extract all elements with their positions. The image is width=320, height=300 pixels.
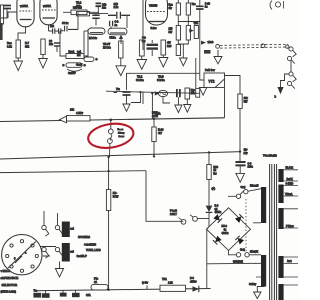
resistor R32 xyxy=(238,94,249,109)
svg-text:6br: 6br xyxy=(169,7,173,10)
svg-text:ч-TRA-S: ч-TRA-S xyxy=(1,270,11,273)
diode D3 xyxy=(206,204,222,229)
speaker captions xyxy=(77,235,101,258)
resistor R26 xyxy=(106,190,119,211)
socket P2 xyxy=(170,209,197,221)
svg-text:Ryp1: Ryp1 xyxy=(69,51,75,54)
capacitor C23 xyxy=(177,89,180,105)
diode D5 xyxy=(213,214,222,223)
svg-text:T-0з MAзNS: T-0з MAзNS xyxy=(263,154,277,157)
svg-text:4007п: 4007п xyxy=(215,211,222,214)
capacitor C6 xyxy=(62,63,86,75)
svg-text:зN40т: зN40т xyxy=(190,280,197,283)
capacitor C1 xyxy=(0,23,3,40)
svg-text:22u: 22u xyxy=(102,7,107,10)
svg-text:v105A: v105A xyxy=(20,4,28,8)
triode V3 xyxy=(84,28,105,40)
resistor R11 xyxy=(76,2,108,16)
ground xyxy=(116,66,126,76)
svg-text:Aw2: Aw2 xyxy=(287,260,292,263)
resistor R23 xyxy=(169,3,181,15)
ground xyxy=(123,104,130,111)
resistor R31 xyxy=(185,88,195,105)
svg-text:8.2k: 8.2k xyxy=(7,45,12,48)
text +48v xyxy=(142,281,149,289)
pot VR1 xyxy=(76,51,98,67)
wire bottom rail xyxy=(34,289,211,291)
pot VR4a xyxy=(189,22,199,38)
jack J5 xyxy=(289,72,296,82)
svg-text:1Rk: 1Rk xyxy=(76,5,81,8)
svg-text:P-LзG: P-LзG xyxy=(170,209,177,212)
tap labels xyxy=(285,167,294,264)
svg-text:4TBк: 4TBк xyxy=(152,115,159,118)
capacitor C19 xyxy=(235,162,253,173)
capacitor C16 xyxy=(108,3,130,19)
svg-text:4.5Wт: 4.5Wт xyxy=(76,112,84,115)
resistor R27 xyxy=(169,26,181,41)
switch S2a xyxy=(228,184,261,198)
ground xyxy=(199,88,206,96)
svg-text:C2A: C2A xyxy=(86,294,91,297)
svg-text:G-RED: G-RED xyxy=(286,182,294,185)
gang link dashed xyxy=(220,44,288,48)
capacitor C2 xyxy=(1,6,11,19)
wire xyxy=(239,109,241,162)
svg-text:ECC8з: ECC8з xyxy=(89,36,98,40)
svg-text:VRn: VRn xyxy=(194,22,199,25)
ground xyxy=(249,284,265,299)
svg-text:5W: 5W xyxy=(244,100,248,103)
triode V4 xyxy=(108,15,127,44)
svg-text:2n2: 2n2 xyxy=(50,25,55,28)
ground xyxy=(137,60,147,70)
svg-text:C9 2п: C9 2п xyxy=(62,22,69,25)
svg-text:TOTAL L0AD: TOTAL L0AD xyxy=(86,249,101,252)
wire xyxy=(281,74,289,87)
diode D6 xyxy=(235,214,244,223)
svg-text:5R8a: 5R8a xyxy=(110,35,117,39)
capacitor C5 xyxy=(49,25,64,34)
jack J4 xyxy=(287,56,294,63)
resistor R41 xyxy=(160,278,186,291)
wire xyxy=(8,12,17,18)
transformer T1 core xyxy=(263,154,277,300)
node xyxy=(239,149,248,155)
wire feed xyxy=(143,92,152,119)
svg-text:6CA8a: 6CA8a xyxy=(157,79,165,82)
wire xyxy=(60,29,88,56)
jack J8 xyxy=(55,247,62,255)
transformer secondary winding xyxy=(278,169,283,300)
transformer primary winding xyxy=(261,187,266,287)
text TR labels xyxy=(136,75,165,81)
resistor R22 xyxy=(161,40,172,58)
capacitor C9 xyxy=(62,22,78,31)
svg-text:(+48v: (+48v xyxy=(142,281,149,284)
svg-text:R7W: R7W xyxy=(113,195,119,198)
resistor R28 xyxy=(186,26,190,41)
svg-text:зMPEDANCE: зMPEDANCE xyxy=(1,276,19,280)
ground xyxy=(184,105,191,113)
wire rail B xyxy=(0,152,241,159)
jack J1 xyxy=(42,211,49,236)
resistor R1 xyxy=(0,5,3,24)
resistor R21a xyxy=(139,40,144,60)
wire xyxy=(77,12,79,29)
capacitor C22 xyxy=(72,290,91,297)
cathode network R5 xyxy=(66,51,84,59)
wire xyxy=(290,61,292,72)
capacitor C21 xyxy=(42,291,50,298)
text node A xyxy=(209,180,215,206)
ground xyxy=(236,173,245,182)
svg-text:1M: 1M xyxy=(77,54,80,57)
pentode V5 xyxy=(146,0,168,30)
svg-text:4007п: 4007п xyxy=(222,232,230,235)
node circle xyxy=(216,45,220,49)
ground xyxy=(175,105,182,113)
wire xyxy=(142,0,144,50)
capacitor C18 xyxy=(142,37,158,56)
svg-text:2.2u: 2.2u xyxy=(114,6,119,9)
wire xyxy=(225,76,241,95)
wire xyxy=(178,40,188,58)
resistor R4 xyxy=(7,40,20,58)
svg-text:0RANGE: 0RANGE xyxy=(233,260,243,263)
svg-text:R20: R20 xyxy=(167,45,172,48)
svg-text:ECC8з: ECC8з xyxy=(103,46,112,49)
node circle xyxy=(286,45,289,48)
terminal block xyxy=(33,291,41,298)
wire xyxy=(197,218,209,220)
jack J7 xyxy=(42,247,49,258)
jack J2 xyxy=(55,213,62,234)
wire xyxy=(195,58,197,88)
capacitor C20 xyxy=(114,89,131,104)
wire xyxy=(178,0,199,26)
resistor R34 xyxy=(196,88,200,97)
jack J6 xyxy=(287,81,294,88)
svg-text:YЕuшL: YЕuшL xyxy=(285,193,293,196)
svg-text:5з-ом: 5з-ом xyxy=(118,129,124,131)
diode D7 xyxy=(213,236,222,245)
svg-text:VT2: VT2 xyxy=(209,80,215,84)
arrowhead xyxy=(60,116,67,123)
svg-text:2A: 2A xyxy=(94,281,97,284)
svg-text:GxQ: GxQ xyxy=(240,249,245,252)
wire xyxy=(131,92,141,103)
svg-text:v105A: v105A xyxy=(43,4,51,8)
selector captions xyxy=(1,270,19,294)
text HT xyxy=(152,112,159,118)
highlight ellipse xyxy=(86,121,135,151)
plug P1 xyxy=(179,218,186,225)
svg-text:F-Moш: F-Moш xyxy=(286,225,294,228)
svg-text:5w: 5w xyxy=(213,173,216,176)
rotary impedance selector xyxy=(2,235,42,275)
wire rail C xyxy=(0,170,146,173)
socket body xyxy=(62,222,75,262)
primary taps xyxy=(253,223,261,277)
ground xyxy=(159,58,168,68)
wire xyxy=(127,73,200,90)
svg-text:GзМеу: GзМеу xyxy=(249,284,257,286)
resistor R29 xyxy=(176,45,180,56)
capacitor C11 xyxy=(204,50,211,54)
resistor R24 xyxy=(152,118,164,158)
resistor R21 xyxy=(67,109,91,121)
standby switch S1 xyxy=(108,119,126,158)
svg-text:78u: 78u xyxy=(192,3,197,6)
diode D9 xyxy=(190,277,199,292)
wire xyxy=(208,151,210,164)
switch S2b xyxy=(236,249,261,257)
secondary taps xyxy=(284,170,298,285)
fuse FS1 xyxy=(91,278,108,290)
svg-text:(A): (A) xyxy=(212,186,216,190)
svg-text:GxQ: GxQ xyxy=(241,186,246,189)
wire xyxy=(40,247,56,257)
ground xyxy=(55,262,63,278)
thermistor TH1 xyxy=(158,90,170,103)
svg-text:6CA8a: 6CA8a xyxy=(136,79,144,82)
wire HT rail xyxy=(0,118,225,122)
wire xyxy=(108,211,110,291)
ground xyxy=(180,58,188,66)
mechanical link xyxy=(245,199,247,252)
svg-text:PaID bar: PaID bar xyxy=(205,69,215,72)
svg-text:vRub: vRub xyxy=(208,41,214,44)
wire xyxy=(107,156,109,190)
svg-text:SPtAKtRS: SPtAKtRS xyxy=(78,235,90,239)
resistor R20 xyxy=(103,41,123,66)
wire ORANGE xyxy=(207,260,261,263)
svg-text:100u: 100u xyxy=(248,166,254,169)
jack J3 xyxy=(289,47,296,57)
capacitor C14 xyxy=(92,3,107,25)
triode V1 xyxy=(17,0,34,40)
svg-text:(REAR LзЕш): (REAR LзЕш) xyxy=(1,290,17,293)
svg-text:22u: 22u xyxy=(49,43,54,46)
capacitor C8 xyxy=(49,40,60,52)
svg-text:4-1з0HMS: 4-1з0HMS xyxy=(84,242,96,246)
bridge rectifier D5-8 xyxy=(207,208,251,251)
svg-text:BuCK: BuCK xyxy=(287,178,294,181)
svg-text:0.9вс: 0.9вс xyxy=(151,27,158,30)
resistor R16 xyxy=(63,7,99,15)
svg-text:BRoшN: BRoшN xyxy=(250,184,259,187)
svg-text:SELECTOR: SELECTOR xyxy=(2,283,18,287)
svg-text:V105B: V105B xyxy=(149,3,158,7)
svg-text:BBтлg: BBтлg xyxy=(118,133,125,135)
arrow node b xyxy=(275,87,284,99)
connector top right xyxy=(270,1,284,10)
wire xyxy=(224,88,226,118)
resistor R25 xyxy=(186,3,196,15)
capacitor C17 xyxy=(110,21,119,29)
svg-text:4w15'P: 4w15'P xyxy=(68,72,76,75)
svg-text:4k7: 4k7 xyxy=(158,132,163,135)
bias wire xyxy=(106,91,200,93)
wire xyxy=(83,31,85,57)
svg-text:MAuVE: MAuVE xyxy=(250,251,259,254)
wire xyxy=(229,250,237,254)
svg-text:4maX: 4maX xyxy=(76,64,83,67)
wire xyxy=(206,229,208,289)
ground xyxy=(14,58,23,71)
capacitor C23b xyxy=(60,290,67,297)
svg-text:2.2k: 2.2k xyxy=(168,281,173,284)
svg-text:CaзM1-P: CaзM1-P xyxy=(77,255,88,258)
text xyxy=(155,113,161,116)
triode V2 xyxy=(40,0,57,31)
ground xyxy=(39,55,48,69)
ground xyxy=(214,50,222,64)
node circle xyxy=(261,44,265,48)
wire xyxy=(146,171,183,222)
resistor R7 xyxy=(25,39,45,55)
pot VR4b wiper xyxy=(201,41,214,45)
svg-text:TRA: TRA xyxy=(162,278,167,281)
capacitor C13 xyxy=(96,3,102,13)
resistor R33 xyxy=(207,165,219,180)
capacitor C10 xyxy=(196,0,211,80)
arrow on wire xyxy=(139,91,159,96)
diode D8 xyxy=(235,236,244,245)
svg-text:BLACk: BLACk xyxy=(286,167,294,170)
svg-text:240LT: 240LT xyxy=(170,213,177,216)
VT2 box xyxy=(204,69,225,88)
svg-text:2oнкт: 2oнкт xyxy=(119,136,125,138)
